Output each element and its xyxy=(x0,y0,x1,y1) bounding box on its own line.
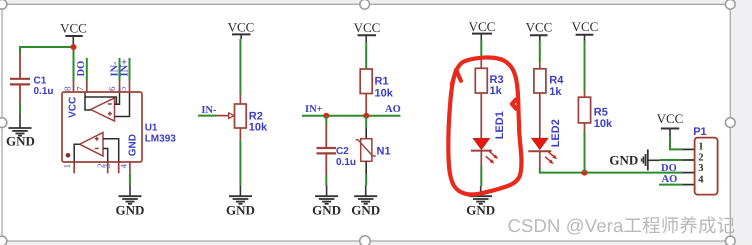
wire IN- to R2 wiper xyxy=(198,115,217,117)
svg-text:0.1u: 0.1u xyxy=(336,157,356,168)
op-amp A internal wires xyxy=(85,93,130,117)
thermistor N1 xyxy=(356,127,391,174)
wire ground to P1 pin 2 xyxy=(660,159,683,161)
svg-text:10k: 10k xyxy=(594,118,613,130)
svg-text:VCC: VCC xyxy=(572,19,599,34)
svg-text:AO: AO xyxy=(662,174,678,185)
pin 3 stub P1 xyxy=(682,172,694,174)
svg-text:LM393: LM393 xyxy=(145,133,177,144)
potentiometer R2 xyxy=(216,95,268,141)
svg-text:GND: GND xyxy=(226,203,255,218)
svg-text:1k: 1k xyxy=(549,86,562,98)
ground (U1 pin 4) xyxy=(116,186,145,218)
junction R5/DO xyxy=(582,170,588,176)
svg-text:8: 8 xyxy=(62,86,72,91)
wire VCC to C1 and U1 pin 8 xyxy=(20,47,74,54)
gray margin bottom xyxy=(0,241,752,245)
pin 8 stub xyxy=(73,81,75,93)
pin 4 stub P1 xyxy=(682,184,694,186)
junction C2 node xyxy=(323,113,329,119)
wire R2 to ground xyxy=(239,140,241,185)
svg-text:VCC: VCC xyxy=(60,20,87,35)
resistor R4 xyxy=(534,62,564,98)
svg-text:DO: DO xyxy=(76,61,87,77)
pin 1 stub P1 xyxy=(682,148,694,150)
svg-text:VCC: VCC xyxy=(228,19,255,34)
power symbol VCC (P1) xyxy=(657,111,684,137)
capacitor C2 xyxy=(317,116,357,175)
svg-text:GND: GND xyxy=(351,203,380,218)
pin 7 stub xyxy=(86,81,88,93)
LED LED1 xyxy=(471,111,506,163)
svg-text:N1: N1 xyxy=(377,146,391,158)
svg-text:R1: R1 xyxy=(375,75,389,87)
connector P1 xyxy=(693,126,717,195)
power symbol VCC (R4) xyxy=(526,19,553,41)
svg-text:7: 7 xyxy=(75,86,85,91)
power symbol VCC (R5) xyxy=(572,19,599,40)
pin 1 marker dot xyxy=(66,153,71,158)
lead R3 to LED1 xyxy=(480,93,482,139)
wire DO horizontal xyxy=(540,168,683,173)
svg-text:AO: AO xyxy=(385,104,401,115)
capacitor C1 xyxy=(10,54,54,104)
svg-text:VCC: VCC xyxy=(354,20,381,35)
pin 5 wire IN+ stub xyxy=(129,58,131,81)
power symbol VCC (R2) xyxy=(228,19,255,39)
svg-text:LED1: LED1 xyxy=(494,111,506,139)
svg-text:6: 6 xyxy=(107,86,117,91)
junction N1 node xyxy=(363,113,369,119)
svg-text:IN+: IN+ xyxy=(120,59,131,77)
svg-text:1k: 1k xyxy=(490,85,503,97)
svg-text:GND: GND xyxy=(466,203,495,218)
lead R4 to LED2 xyxy=(539,93,541,138)
wire VCC to R4 xyxy=(539,41,541,62)
svg-text:P1: P1 xyxy=(693,126,706,138)
wire C2 to ground xyxy=(325,175,327,186)
wire pin 4 to ground xyxy=(129,173,131,185)
svg-text:VCC: VCC xyxy=(67,97,78,118)
wire VCC to P1 pin 1 xyxy=(670,137,682,150)
svg-text:VCC: VCC xyxy=(657,111,684,126)
wire N1 to ground xyxy=(365,175,367,186)
svg-text:R4: R4 xyxy=(549,75,564,87)
svg-text:1: 1 xyxy=(62,164,72,169)
op-amp A (top, points left) xyxy=(91,98,115,121)
svg-text:C2: C2 xyxy=(336,146,349,157)
ground (C1) xyxy=(6,114,35,149)
svg-text:LED2: LED2 xyxy=(550,119,562,147)
annotation red circle around R3/LED1 xyxy=(448,57,521,194)
svg-text:10k: 10k xyxy=(249,122,268,134)
gray margin right xyxy=(730,0,752,245)
svg-text:5: 5 xyxy=(118,86,128,91)
pin 7 wire DO stub xyxy=(86,58,88,81)
ground (N1) xyxy=(351,186,380,218)
wire U1 pin 8 drop xyxy=(73,47,75,81)
wire VCC to R1 xyxy=(365,42,367,69)
pin 3 stub xyxy=(118,162,120,173)
op-amp B (bottom, points left) xyxy=(80,133,103,157)
gray margin top xyxy=(0,0,752,4)
svg-text:2: 2 xyxy=(698,152,703,163)
pin 2 stub P1 xyxy=(682,159,694,161)
lead R5 to DO net xyxy=(584,123,586,132)
pin 2 stub xyxy=(107,162,109,173)
svg-text:4: 4 xyxy=(119,163,129,168)
pin 4 stub xyxy=(129,162,131,173)
svg-text:4: 4 xyxy=(698,174,704,185)
svg-text:C1: C1 xyxy=(34,75,47,86)
wire IN+ / AO xyxy=(302,115,401,117)
wire VCC to R5 xyxy=(584,41,586,91)
svg-text:VCC: VCC xyxy=(526,19,553,34)
pin 6 stub xyxy=(119,81,121,93)
svg-text:CSDN @Vera工程师养成记: CSDN @Vera工程师养成记 xyxy=(508,215,736,236)
op-amp B internal wires xyxy=(74,139,119,162)
junction VCC node xyxy=(71,44,77,50)
svg-text:DO: DO xyxy=(661,163,677,174)
lead R1 to node xyxy=(365,94,367,116)
pin 6 wire IN- stub xyxy=(119,58,121,81)
power symbol VCC (R1) xyxy=(354,20,381,42)
ground (P1 pin 2, sideways) xyxy=(609,150,659,171)
wire VCC to R3 xyxy=(480,40,482,59)
svg-text:GND: GND xyxy=(312,203,341,218)
wire LED2 to DO net xyxy=(539,151,541,168)
svg-text:GND: GND xyxy=(609,152,638,167)
power symbol VCC (R3) xyxy=(469,19,496,40)
svg-text:3: 3 xyxy=(698,163,703,174)
svg-text:3: 3 xyxy=(102,163,112,168)
wire node to N1 xyxy=(365,116,367,128)
ground (R2) xyxy=(226,186,255,218)
svg-text:GND: GND xyxy=(6,134,35,149)
svg-text:GND: GND xyxy=(127,134,138,156)
svg-text:GND: GND xyxy=(116,203,145,218)
ground (C2) xyxy=(312,186,341,218)
resistor R1 xyxy=(360,69,394,99)
wire C1 to ground xyxy=(19,103,21,114)
svg-text:1: 1 xyxy=(698,142,703,153)
resistor R5 xyxy=(578,91,613,131)
wire LED1 to ground xyxy=(480,151,482,166)
op-amp U1 LM393 box xyxy=(62,92,142,162)
svg-text:10k: 10k xyxy=(375,87,394,99)
svg-text:IN+: IN+ xyxy=(305,104,323,115)
pin 1 stub xyxy=(73,162,75,173)
pin 5 stub xyxy=(129,81,131,93)
LED LED2 xyxy=(528,119,562,164)
wire VCC to R2 xyxy=(239,39,241,95)
svg-text:VCC: VCC xyxy=(469,19,496,34)
wire AO net xyxy=(659,184,682,186)
ground (LED1) xyxy=(466,186,495,218)
power symbol VCC (U1) xyxy=(60,20,87,47)
resistor R3 xyxy=(475,59,503,98)
svg-text:IN-: IN- xyxy=(201,105,217,116)
svg-text:R5: R5 xyxy=(594,106,608,118)
svg-text:U1: U1 xyxy=(145,122,158,133)
svg-text:0.1u: 0.1u xyxy=(34,86,54,97)
